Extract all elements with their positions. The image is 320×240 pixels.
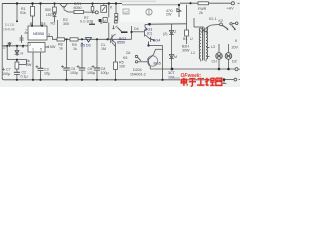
svg-text:1N4148: 1N4148: [3, 28, 15, 32]
svg-text:D1 D2: D1 D2: [5, 23, 15, 27]
svg-text:(2): (2): [163, 32, 167, 36]
svg-text:1: 1: [32, 48, 34, 52]
svg-text:D4: D4: [134, 27, 139, 31]
svg-text:u2: u2: [124, 11, 128, 15]
svg-text:BG5: BG5: [154, 62, 161, 66]
svg-text:100μ: 100μ: [2, 72, 10, 76]
svg-text:K2-1: K2-1: [209, 17, 217, 21]
svg-text:8050: 8050: [74, 6, 82, 10]
svg-text:27: 27: [3, 46, 7, 50]
svg-text:10μ: 10μ: [44, 72, 50, 76]
svg-text:100μ: 100μ: [101, 71, 109, 75]
svg-text:(C): (C): [147, 32, 152, 36]
svg-text:B1: B1: [183, 37, 187, 41]
svg-text:M: M: [174, 55, 177, 59]
svg-text:D5: D5: [81, 44, 86, 48]
svg-text:5: 5: [40, 48, 42, 52]
svg-text:10A: 10A: [168, 76, 175, 80]
svg-text:K5: K5: [123, 56, 127, 60]
svg-text:D204: D204: [133, 68, 142, 72]
svg-text:K2: K2: [219, 19, 223, 23]
svg-text:0.1μ: 0.1μ: [21, 75, 28, 79]
svg-text:8550: 8550: [117, 41, 125, 45]
svg-text:300: 300: [63, 22, 69, 26]
svg-text:100μ: 100μ: [87, 71, 95, 75]
svg-text:7: 7: [25, 29, 27, 33]
svg-text:20V: 20V: [232, 46, 239, 50]
svg-text:500: 500: [45, 8, 51, 12]
svg-text:L3: L3: [211, 45, 215, 49]
svg-text:1M: 1M: [101, 47, 106, 51]
svg-text:+HV: +HV: [227, 7, 235, 11]
svg-text:L1: L1: [191, 51, 195, 55]
svg-text:3CT: 3CT: [168, 71, 176, 75]
svg-text:NE555: NE555: [33, 32, 44, 36]
svg-text:100: 100: [119, 65, 125, 69]
svg-text:D3: D3: [86, 44, 91, 48]
svg-text:2A: 2A: [126, 51, 131, 55]
svg-text:30W: 30W: [182, 49, 190, 53]
svg-text:91k: 91k: [20, 11, 26, 15]
svg-text:0.1-1Ω: 0.1-1Ω: [80, 20, 91, 24]
svg-text:2W: 2W: [26, 63, 32, 67]
svg-text:2k: 2k: [199, 11, 203, 15]
svg-text:BG4: BG4: [153, 39, 160, 43]
svg-text:H: H: [21, 52, 24, 56]
svg-text:1k: 1k: [73, 47, 77, 51]
svg-text:2: 2: [29, 43, 31, 47]
svg-text:2W: 2W: [166, 13, 172, 17]
svg-text:U: U: [190, 37, 193, 41]
svg-text:100μ: 100μ: [70, 71, 78, 75]
svg-text:LED: LED: [46, 13, 53, 17]
svg-text:R3: R3: [51, 22, 56, 26]
svg-text:4.5W: 4.5W: [47, 45, 56, 49]
svg-text:4: 4: [30, 22, 32, 26]
svg-text:8: 8: [44, 22, 46, 26]
svg-text:CH: CH: [212, 60, 218, 64]
svg-text:DZ: DZ: [232, 60, 238, 64]
svg-text:1N4001-2: 1N4001-2: [130, 73, 146, 77]
svg-text:1k: 1k: [59, 47, 63, 51]
svg-text:3: 3: [48, 33, 50, 37]
